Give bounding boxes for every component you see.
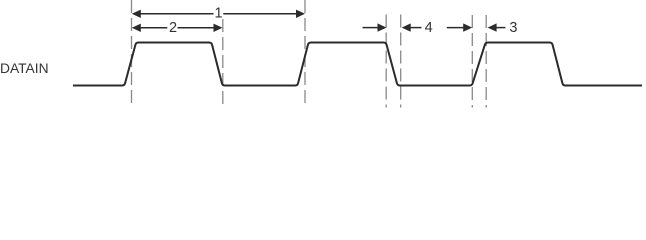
dimension arrow 4 left pointer: [363, 23, 387, 31]
dashed reference line t3-right (x=486.2): [485, 15, 487, 108]
svg-text:3: 3: [509, 20, 517, 36]
dimension arrow 3 right pointer: [488, 23, 506, 31]
dimension arrow 3 left pointer: [447, 23, 472, 31]
dashed reference line t1-left (x=131.5): [131, 0, 133, 107]
dimension arrow 4 right pointer: [402, 23, 422, 31]
waveform DATAIN trace: [73, 43, 642, 86]
svg-text:4: 4: [425, 20, 433, 36]
dashed reference line t4-right (x=400.7): [400, 15, 402, 108]
svg-text:DATAIN: DATAIN: [0, 61, 49, 76]
dashed reference line t1-right (x=305): [304, 0, 306, 107]
dimension arrow 2 (pulse width): [132, 24, 223, 32]
dashed reference line t3-left (x=472.3): [471, 15, 473, 108]
svg-text:1: 1: [214, 5, 222, 21]
svg-text:2: 2: [169, 20, 177, 36]
dashed reference line t4-left (x=386.2): [385, 15, 387, 108]
dimension arrow 1 (cycle time): [132, 10, 305, 18]
dashed reference line t1-mid (x=222.8): [222, 19, 224, 107]
